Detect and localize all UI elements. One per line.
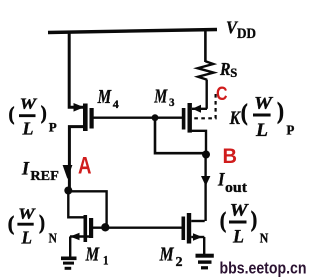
svg-text:L: L — [232, 227, 244, 248]
svg-text:out: out — [225, 180, 247, 196]
svg-text:): ) — [251, 206, 257, 231]
svg-text:W: W — [254, 93, 274, 113]
dashed annotation from node C to M3 — [193, 94, 216, 118]
wire: gate bus down and right to node B — [155, 118, 206, 154]
resistor RS zigzag — [198, 61, 214, 80]
svg-text:L: L — [22, 119, 34, 139]
svg-text:C: C — [216, 83, 228, 105]
svg-text:M: M — [97, 86, 112, 108]
Iout label — [217, 170, 247, 197]
svg-text:L: L — [255, 120, 268, 141]
svg-text:P: P — [49, 120, 57, 135]
svg-text:M: M — [85, 244, 100, 266]
M3 label — [153, 85, 174, 109]
wire: M3 source up to RS — [205, 80, 207, 109]
svg-text:A: A — [78, 152, 92, 179]
transistor M1 (NMOS, gate left) — [70, 215, 93, 242]
node A junction dot — [64, 187, 72, 195]
wire: node B down to M2 drain — [204, 155, 206, 222]
svg-text:K: K — [229, 108, 241, 129]
svg-text:(: ( — [220, 208, 226, 233]
svg-text:R: R — [219, 59, 230, 79]
svg-text:REF: REF — [30, 169, 59, 184]
svg-text:M: M — [159, 244, 175, 266]
wire: VDD rail down to M4 source — [69, 31, 83, 107]
wire: M1 source down to ground — [69, 237, 71, 258]
svg-text:S: S — [230, 65, 237, 80]
svg-text:1: 1 — [103, 253, 109, 268]
svg-text:N: N — [49, 231, 57, 246]
wire: node A right then down to M1 drain — [68, 191, 106, 226]
RS label — [219, 59, 237, 80]
svg-text:(: ( — [8, 214, 14, 235]
svg-text:W: W — [18, 206, 37, 223]
ground under M1 — [61, 257, 77, 270]
svg-text:): ) — [277, 98, 284, 123]
svg-text:): ) — [41, 103, 47, 124]
wire: node A down to M1 gate — [68, 190, 83, 217]
svg-text:2: 2 — [176, 254, 183, 269]
M4 label — [97, 86, 119, 111]
wire: M4 drain down to node A (IREF branch) — [69, 127, 83, 190]
wire: VDD rail down to RS — [204, 30, 207, 63]
svg-text:(: ( — [241, 100, 248, 125]
wire: M2 source down to ground — [203, 237, 205, 254]
current arrow IREF — [63, 165, 73, 179]
svg-text:I: I — [217, 170, 225, 191]
svg-text:I: I — [21, 159, 30, 180]
svg-text:(: ( — [9, 104, 15, 125]
transistor M4 (PMOS, mirrored: channel left, gate right) — [74, 103, 94, 131]
IREF label — [21, 159, 59, 184]
left label (W/L)P — [9, 96, 57, 139]
svg-text:P: P — [286, 124, 294, 139]
node B junction dot — [202, 151, 210, 159]
svg-text:): ) — [39, 213, 45, 234]
svg-text:W: W — [230, 200, 250, 220]
VDD rail — [48, 30, 217, 33]
svg-text:W: W — [20, 96, 39, 113]
wire: M1 drain to M2 gate — [93, 226, 182, 228]
M1 label — [85, 244, 109, 268]
wire: gate bus M4 gate to M3 gate — [94, 116, 183, 118]
svg-text:B: B — [223, 145, 238, 168]
M2 label — [159, 244, 183, 270]
transistor M2 (NMOS, gate left, source arrow right) — [182, 213, 205, 244]
junction dot on gate bus — [152, 114, 159, 121]
ground under M2 — [196, 254, 214, 270]
right label (W/L)N — [220, 200, 268, 248]
svg-text:3: 3 — [169, 97, 175, 109]
svg-text:4: 4 — [113, 99, 119, 111]
current arrow Iout — [201, 176, 210, 186]
wire: M3 drain right and down to node B — [192, 131, 206, 154]
svg-text:M: M — [153, 85, 168, 107]
junction dot (M1 drain / M2 gate wire) — [101, 223, 109, 231]
VDD label — [226, 17, 256, 42]
transistor M3 (PMOS, gate left, channel right) — [182, 103, 207, 133]
svg-text:L: L — [21, 228, 32, 248]
svg-text:DD: DD — [237, 26, 256, 42]
svg-text:N: N — [260, 232, 269, 247]
left label (W/L)N — [8, 206, 57, 248]
K(W/L)P label — [229, 93, 295, 141]
svg-text:bbs.eetop.cn: bbs.eetop.cn — [220, 259, 307, 277]
